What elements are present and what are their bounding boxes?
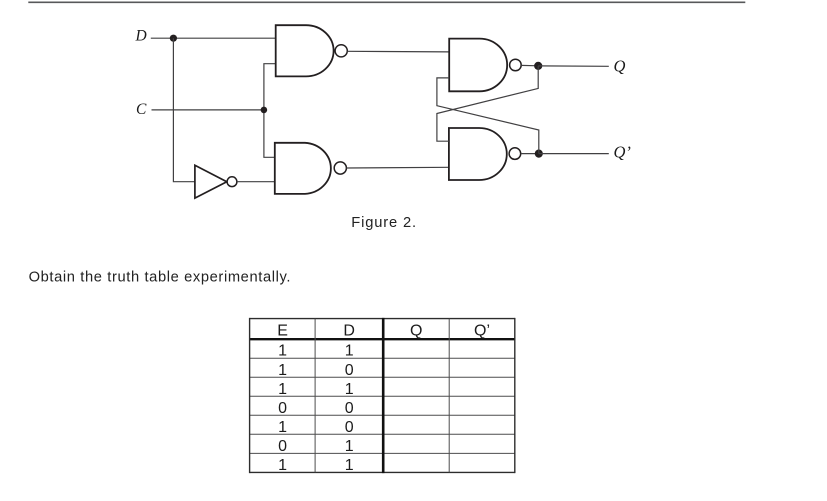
- wire C input: [152, 109, 264, 111]
- nand gate U1 top-middle: [276, 25, 348, 76]
- svg-text:D: D: [135, 28, 147, 45]
- wire Q' output: [539, 153, 609, 155]
- svg-text:Figure 2.: Figure 2.: [351, 215, 417, 231]
- wire Q output: [538, 65, 609, 67]
- svg-text:1: 1: [345, 381, 354, 398]
- svg-text:1: 1: [278, 457, 287, 474]
- node C junction: [261, 107, 268, 114]
- wire inverter output: [237, 181, 275, 183]
- page top rule: [28, 1, 745, 3]
- nand gate U5 bottom-right: [449, 128, 521, 180]
- table header text: [277, 323, 490, 340]
- wire D vertical to inverter: [173, 38, 195, 182]
- wire D input: [151, 37, 276, 39]
- wire U1 output to U2 input: [347, 50, 449, 53]
- node Q junction: [534, 62, 542, 70]
- wire U5 output stub: [521, 153, 539, 155]
- svg-text:Q: Q: [410, 323, 422, 340]
- svg-text:Q’: Q’: [614, 143, 631, 162]
- svg-text:0: 0: [345, 400, 354, 417]
- svg-text:1: 1: [278, 419, 287, 436]
- svg-text:1: 1: [278, 362, 287, 379]
- svg-text:0: 0: [278, 438, 287, 455]
- svg-text:0: 0: [278, 400, 287, 417]
- svg-text:1: 1: [345, 343, 354, 360]
- svg-text:0: 0: [345, 419, 354, 436]
- wire U4 output to U5 input: [346, 166, 449, 169]
- table data column D: [345, 343, 354, 474]
- svg-text:Obtain the truth table experim: Obtain the truth table experimentally.: [29, 269, 292, 285]
- svg-text:1: 1: [278, 343, 287, 360]
- wire U2 output stub: [521, 64, 538, 66]
- svg-text:0: 0: [345, 362, 354, 379]
- svg-text:Q: Q: [614, 57, 626, 76]
- table data column E: [278, 343, 287, 474]
- wire C branch vertical: [264, 64, 276, 158]
- svg-text:1: 1: [345, 457, 354, 474]
- wire feedback Q' to U2 input: [437, 78, 539, 154]
- svg-text:1: 1: [345, 438, 354, 455]
- nand gate U2 top-right: [449, 39, 521, 92]
- wire feedback Q to U5 input: [437, 66, 538, 141]
- svg-text:D: D: [343, 323, 355, 340]
- node D junction: [170, 35, 177, 42]
- svg-text:E: E: [277, 323, 288, 340]
- node Q' junction: [535, 150, 543, 158]
- nand gate U4 bottom-middle: [275, 143, 347, 194]
- svg-text:C: C: [136, 101, 147, 118]
- svg-text:1: 1: [278, 381, 287, 398]
- truth table grid: [250, 318, 515, 473]
- svg-text:Q’: Q’: [474, 323, 490, 340]
- inverter U3: [195, 165, 237, 198]
